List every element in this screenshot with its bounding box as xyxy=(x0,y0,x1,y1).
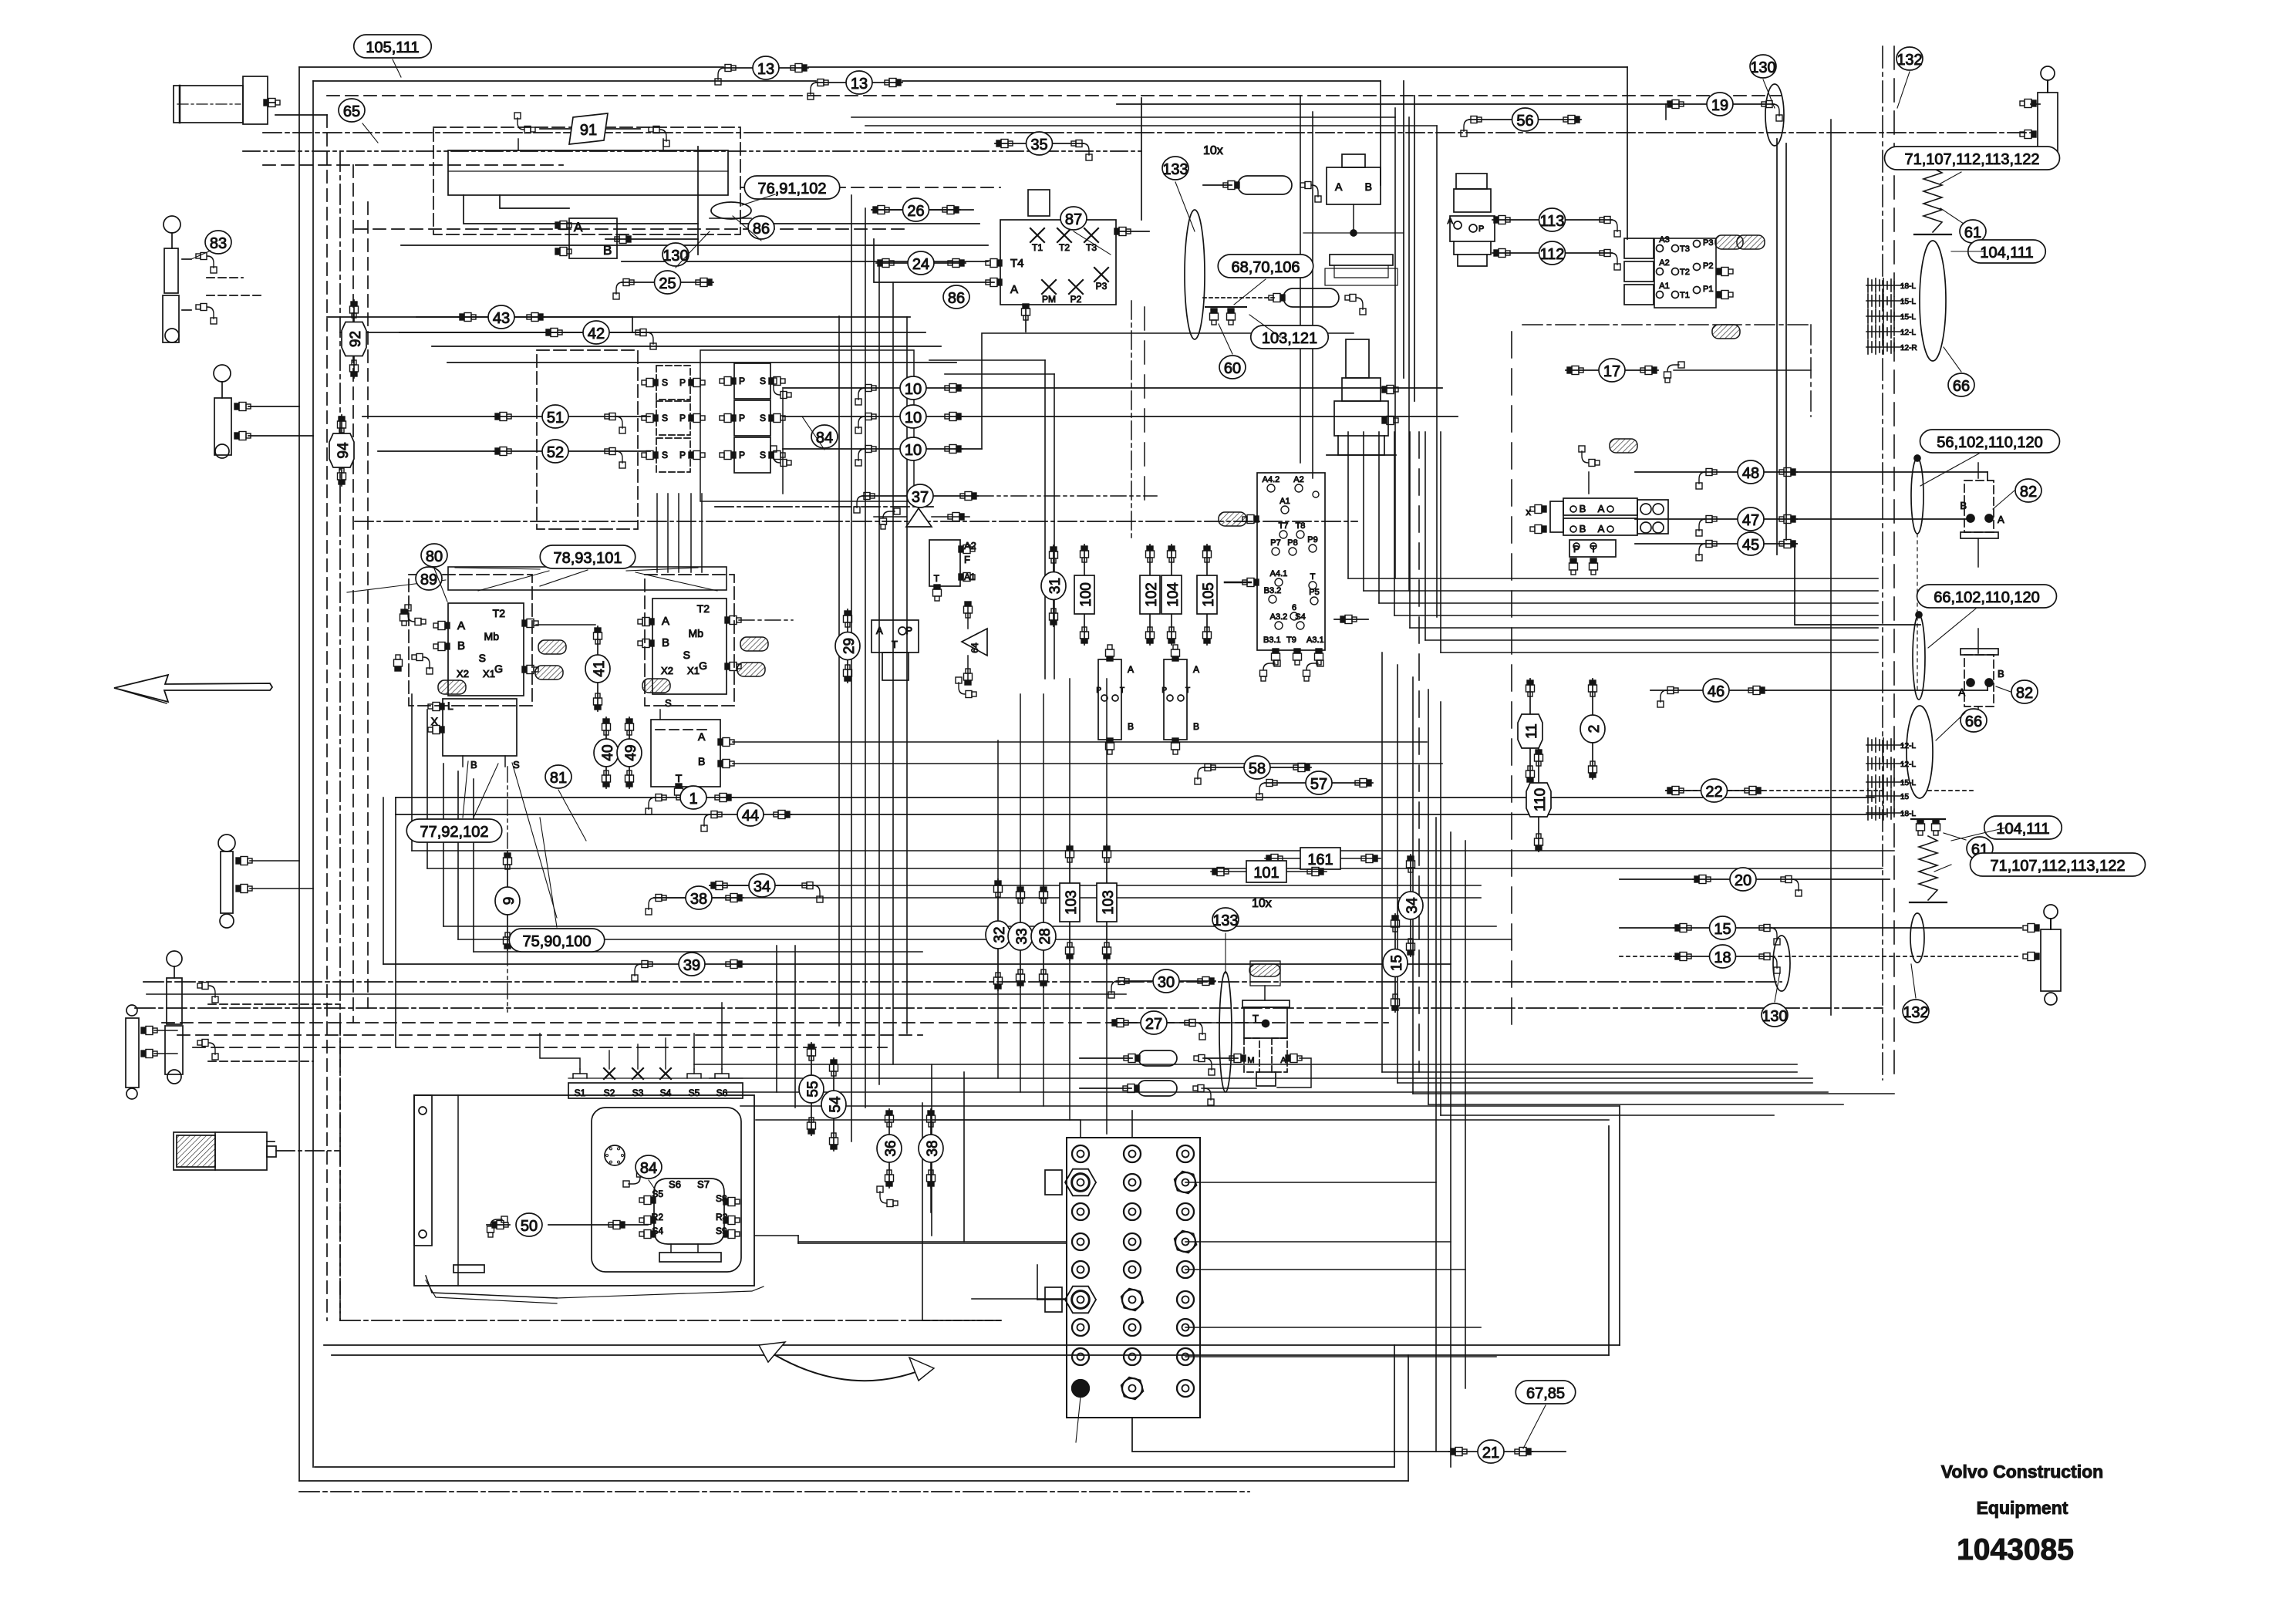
svg-text:A: A xyxy=(876,625,883,636)
balloon 87 xyxy=(1060,207,1087,230)
svg-text:S: S xyxy=(662,450,668,460)
svg-text:P5: P5 xyxy=(1309,588,1319,597)
wire: verticals center top xyxy=(1300,96,1301,463)
svg-text:12-R: 12-R xyxy=(1900,344,1917,352)
svg-text:68,70,106: 68,70,106 xyxy=(1232,259,1300,276)
tank assembly xyxy=(414,1095,754,1286)
svg-text:A3: A3 xyxy=(1659,235,1669,244)
svg-text:S: S xyxy=(760,376,766,386)
manifold wire entries xyxy=(932,1120,1081,1138)
svg-text:104,111: 104,111 xyxy=(1980,244,2033,261)
svg-text:A: A xyxy=(698,730,706,743)
hose 34 xyxy=(710,874,823,902)
svg-text:71,107,112,113,122: 71,107,112,113,122 xyxy=(1991,858,2126,875)
hose 17 xyxy=(1566,359,1658,382)
hose 101 xyxy=(1211,871,1327,872)
svg-text:B: B xyxy=(1365,180,1372,193)
svg-text:A: A xyxy=(1128,664,1134,675)
svg-text:B: B xyxy=(1960,500,1967,511)
svg-text:101: 101 xyxy=(1253,865,1279,882)
svg-text:S: S xyxy=(479,652,486,664)
wire: cooler to valve T4 xyxy=(740,187,1000,188)
svg-text:55: 55 xyxy=(805,1081,821,1097)
dashed boxes around pumps xyxy=(409,575,532,706)
svg-text:18: 18 xyxy=(1714,949,1731,966)
hose 19 xyxy=(1666,93,1782,121)
svg-text:S: S xyxy=(760,413,766,423)
svg-text:22: 22 xyxy=(1705,784,1722,801)
hose 25 xyxy=(613,271,713,299)
hose 113 xyxy=(1492,208,1620,237)
wire: valve stack outputs xyxy=(783,387,864,389)
hose 47 xyxy=(1696,508,1797,536)
balloon 86 xyxy=(748,216,774,239)
svg-text:60: 60 xyxy=(1224,360,1241,377)
hose 110 (vertical) xyxy=(1526,748,1551,851)
label 75,90,100 xyxy=(509,929,605,952)
svg-text:28: 28 xyxy=(1037,928,1054,944)
svg-text:102: 102 xyxy=(1144,582,1160,607)
svg-text:84: 84 xyxy=(640,1160,657,1177)
svg-text:T: T xyxy=(1310,572,1316,582)
svg-text:41: 41 xyxy=(592,660,608,676)
triangle 23 xyxy=(906,508,932,527)
wire: center bundle corners right xyxy=(1382,1071,1797,1073)
svg-text:S4: S4 xyxy=(660,1088,672,1098)
svg-text:P8: P8 xyxy=(1287,538,1297,548)
svg-text:31: 31 xyxy=(1047,578,1064,594)
balloon 132br xyxy=(1903,1000,1929,1023)
svg-text:47: 47 xyxy=(1742,512,1759,529)
balloon 82b xyxy=(2011,680,2038,703)
wire: long dashed verticals center xyxy=(1418,432,1420,1072)
hose 48 xyxy=(1696,460,1797,489)
svg-text:P9: P9 xyxy=(1307,535,1317,545)
svg-text:38: 38 xyxy=(925,1140,941,1156)
label 77,92,102 xyxy=(406,819,502,842)
right cyl 82 bottom xyxy=(1961,649,1998,655)
svg-text:B: B xyxy=(457,639,465,653)
svg-text:18-L: 18-L xyxy=(1900,810,1916,818)
label 104,111 xyxy=(1968,240,2046,263)
svg-text:B: B xyxy=(603,243,612,258)
svg-text:T8: T8 xyxy=(1296,521,1306,531)
hose 56 xyxy=(1461,108,1581,137)
hose 54 (vertical) xyxy=(821,1058,846,1151)
svg-text:130: 130 xyxy=(1750,59,1775,76)
svg-text:75,90,100: 75,90,100 xyxy=(523,933,592,950)
hose 29 (vertical) xyxy=(835,609,860,683)
svg-text:T2: T2 xyxy=(697,602,710,615)
svg-text:76,91,102: 76,91,102 xyxy=(758,180,827,197)
right bottom cylinder xyxy=(2044,905,2058,919)
hose 10b xyxy=(855,405,963,433)
svg-text:15: 15 xyxy=(1389,955,1405,971)
svg-text:A3.2: A3.2 xyxy=(1270,612,1288,622)
svg-text:92: 92 xyxy=(348,331,364,347)
svg-text:Equipment: Equipment xyxy=(1977,1498,2068,1518)
svg-text:T: T xyxy=(1185,686,1190,695)
cylinder top-left xyxy=(174,86,243,123)
hose 36 (vertical) xyxy=(877,1109,902,1188)
svg-text:P: P xyxy=(739,450,745,460)
svg-text:P: P xyxy=(1161,686,1167,695)
svg-text:46: 46 xyxy=(1708,683,1725,700)
svg-text:32: 32 xyxy=(992,926,1008,943)
hose 52 xyxy=(494,440,625,468)
svg-text:87: 87 xyxy=(1065,211,1082,228)
svg-text:130: 130 xyxy=(1762,1008,1787,1025)
wire: center vertical bundle down xyxy=(1381,653,1383,1072)
hose 15b (vertical) xyxy=(1383,914,1408,1012)
tank drain xyxy=(426,1276,557,1298)
svg-text:M: M xyxy=(1247,1056,1254,1065)
hose 38 xyxy=(646,886,743,915)
balloon 81 xyxy=(545,765,571,788)
svg-text:T: T xyxy=(892,639,898,650)
hose 43 xyxy=(458,305,544,329)
wire: outer frame verticals left xyxy=(298,67,300,1481)
S1-S6 header xyxy=(568,1083,743,1098)
box A/B 130 xyxy=(569,218,617,258)
svg-text:81: 81 xyxy=(550,770,567,787)
svg-text:B: B xyxy=(1128,721,1134,732)
svg-text:61: 61 xyxy=(1964,224,1981,241)
valve block 87 xyxy=(1000,220,1116,305)
gear pump in tank xyxy=(654,1179,724,1244)
svg-text:94: 94 xyxy=(335,442,352,459)
small manifold A2/F/A1 xyxy=(929,540,960,586)
spring bottom right xyxy=(1911,818,1945,820)
svg-text:39: 39 xyxy=(683,957,700,974)
svg-text:100: 100 xyxy=(1078,582,1094,607)
svg-text:48: 48 xyxy=(1742,465,1759,482)
hose 40 (vertical) xyxy=(594,717,619,788)
balloon 86b xyxy=(943,285,969,309)
svg-text:A2: A2 xyxy=(1293,475,1303,484)
svg-text:B: B xyxy=(662,636,669,649)
svg-text:X2: X2 xyxy=(661,665,673,676)
balloon 80 xyxy=(421,544,447,567)
hose 161 xyxy=(1265,858,1381,859)
svg-text:A2: A2 xyxy=(1659,258,1669,268)
balloon 65 xyxy=(339,99,365,122)
hose 42 xyxy=(544,321,656,349)
svg-text:21: 21 xyxy=(1482,1445,1499,1462)
svg-text:A: A xyxy=(1598,503,1605,514)
balloon 61b xyxy=(1967,837,1993,860)
wire: bottom buses xyxy=(324,1344,1620,1346)
svg-text:132: 132 xyxy=(1896,52,1922,69)
svg-text:54: 54 xyxy=(828,1096,844,1113)
hose 27 xyxy=(1111,1011,1205,1040)
hose 100 (vertical) xyxy=(1074,545,1094,645)
svg-text:36: 36 xyxy=(883,1140,899,1156)
svg-text:45: 45 xyxy=(1742,537,1759,554)
svg-text:103: 103 xyxy=(1101,890,1117,915)
motor bottom-left xyxy=(174,1132,267,1170)
svg-text:2: 2 xyxy=(1586,725,1603,733)
hose 35 xyxy=(995,132,1092,160)
svg-text:50: 50 xyxy=(521,1218,538,1235)
wire: dashed tank area xyxy=(340,1320,1001,1321)
bottom-center valve 133 xyxy=(1219,972,1232,1092)
svg-text:A: A xyxy=(1958,686,1965,698)
hose 104 (vertical) xyxy=(1161,545,1182,645)
svg-text:A: A xyxy=(1998,514,2004,525)
svg-text:T: T xyxy=(676,772,683,784)
arrow symbol left xyxy=(114,675,272,702)
svg-text:T3: T3 xyxy=(1086,242,1097,253)
svg-text:x: x xyxy=(1526,506,1532,518)
wire: left loop verticals xyxy=(383,798,384,964)
svg-text:29: 29 xyxy=(841,638,858,654)
svg-text:T1: T1 xyxy=(1680,291,1690,300)
svg-text:49: 49 xyxy=(623,744,639,760)
svg-text:A: A xyxy=(574,220,583,234)
svg-text:44: 44 xyxy=(742,808,759,824)
svg-text:9: 9 xyxy=(501,897,518,905)
springs right xyxy=(1916,150,1950,152)
steering valve bank xyxy=(1563,498,1637,515)
balloon 133 xyxy=(1162,157,1188,180)
hose 44 xyxy=(701,803,791,831)
arc arrow xyxy=(764,1348,929,1381)
svg-text:A: A xyxy=(1335,180,1343,193)
wire: left dashed verticals xyxy=(326,115,328,1320)
svg-text:30: 30 xyxy=(1158,974,1175,991)
hose 92 (vertical) xyxy=(342,300,366,378)
svg-text:S3: S3 xyxy=(632,1088,644,1098)
balloon 130 xyxy=(663,243,689,266)
svg-text:24: 24 xyxy=(912,256,929,273)
label 66,102,110,120 xyxy=(1917,585,2057,608)
hose 10c xyxy=(855,437,963,466)
balloon 133b xyxy=(1212,908,1239,931)
svg-text:103,121: 103,121 xyxy=(1262,330,1317,347)
balloon 132tr xyxy=(1896,47,1923,70)
svg-text:P2: P2 xyxy=(1703,261,1713,271)
balloon 61 xyxy=(1960,220,1986,243)
filter block center xyxy=(872,620,919,653)
valve stacks center-top xyxy=(656,366,690,400)
hose 1 xyxy=(646,786,733,814)
svg-text:105,111: 105,111 xyxy=(366,39,419,56)
svg-text:56: 56 xyxy=(1516,113,1533,130)
hose 103b (vertical) xyxy=(1097,845,1117,960)
svg-text:T1: T1 xyxy=(1032,242,1043,253)
svg-text:65: 65 xyxy=(343,103,360,120)
svg-text:10: 10 xyxy=(905,410,922,427)
svg-text:112: 112 xyxy=(1540,246,1565,263)
svg-text:19: 19 xyxy=(1711,97,1728,114)
svg-text:38: 38 xyxy=(690,891,707,908)
label 105,111 xyxy=(354,35,432,58)
svg-text:B: B xyxy=(1580,523,1586,534)
svg-text:82: 82 xyxy=(2020,484,2037,501)
hose 2 (vertical) xyxy=(1580,679,1605,779)
hose 9 (vertical) xyxy=(495,851,520,950)
hose 31 (vertical) xyxy=(1041,545,1066,626)
hose 10a xyxy=(855,376,963,405)
svg-text:S2: S2 xyxy=(604,1088,615,1098)
svg-text:13: 13 xyxy=(757,61,774,78)
balloon 82 xyxy=(2015,479,2041,502)
valve trio A3/T3 xyxy=(1654,238,1716,308)
svg-text:20: 20 xyxy=(1735,872,1752,889)
svg-text:S4: S4 xyxy=(1295,612,1305,622)
svg-text:10x: 10x xyxy=(1203,144,1223,157)
hose 26 xyxy=(872,198,960,221)
hose 50 xyxy=(487,1224,510,1226)
mid right ports 66 xyxy=(1907,706,1933,798)
svg-text:Mb: Mb xyxy=(689,627,704,639)
svg-text:43: 43 xyxy=(493,310,510,327)
svg-text:86: 86 xyxy=(948,290,965,307)
risers bottom center xyxy=(776,946,777,1092)
wire: stack-down verticals xyxy=(656,494,658,572)
hose 13a xyxy=(715,56,808,85)
balloon 89 xyxy=(416,567,442,590)
label 56,102,110,120 xyxy=(1920,430,2060,453)
svg-text:77,92,102: 77,92,102 xyxy=(420,824,489,841)
svg-text:A: A xyxy=(1010,283,1018,296)
svg-text:P: P xyxy=(679,450,686,460)
accumulator hoses top xyxy=(1238,176,1292,194)
svg-text:PM: PM xyxy=(1042,294,1056,305)
svg-text:F: F xyxy=(964,554,970,565)
svg-text:83: 83 xyxy=(210,235,227,252)
svg-text:P3: P3 xyxy=(1096,281,1108,292)
hose 15 xyxy=(1674,916,1780,945)
wire: manifold bottom exit to hose21 xyxy=(1132,1418,1449,1452)
svg-text:104,111: 104,111 xyxy=(1996,821,2049,838)
svg-text:105: 105 xyxy=(1201,582,1217,607)
svg-text:S7: S7 xyxy=(697,1179,710,1190)
wire: staircase from A4 block to fold xyxy=(1347,432,1349,578)
pump block 2 xyxy=(652,599,727,694)
svg-text:S6: S6 xyxy=(669,1179,681,1190)
hose 57 xyxy=(1256,771,1373,800)
svg-text:66: 66 xyxy=(1965,713,1982,730)
hose 49 (vertical) xyxy=(617,717,642,788)
hose 94 (vertical) xyxy=(329,415,354,486)
svg-text:42: 42 xyxy=(588,325,605,342)
svg-text:15-L: 15-L xyxy=(1900,298,1916,306)
svg-text:80: 80 xyxy=(426,548,443,565)
svg-text:P: P xyxy=(1478,224,1484,234)
svg-text:S: S xyxy=(760,450,766,460)
svg-text:S5: S5 xyxy=(689,1088,700,1098)
svg-text:S6: S6 xyxy=(716,1088,728,1098)
hose 22 xyxy=(1666,779,1762,802)
balloon 130br xyxy=(1762,1003,1788,1027)
wire: top horizontal bus xyxy=(299,66,723,68)
svg-text:P: P xyxy=(739,413,745,423)
wire: verticals right of tank xyxy=(922,1103,923,1320)
svg-text:S1: S1 xyxy=(575,1088,586,1098)
small cylinder bottom-left2 xyxy=(126,1005,137,1016)
hose 112 xyxy=(1492,241,1620,270)
svg-text:T2: T2 xyxy=(493,607,506,619)
label 71,107,112,113,122 xyxy=(1971,853,2146,876)
svg-text:66,102,110,120: 66,102,110,120 xyxy=(1934,589,2040,606)
wire: mid-left nested loops xyxy=(355,228,910,230)
svg-text:X1: X1 xyxy=(687,665,700,676)
wire: tall center verticals xyxy=(1394,108,1396,578)
label 76,91,102 xyxy=(744,176,840,199)
top right 133 assembly xyxy=(1327,167,1381,204)
svg-text:15: 15 xyxy=(1900,793,1910,801)
svg-text:T3: T3 xyxy=(1680,244,1690,254)
svg-text:27: 27 xyxy=(1145,1016,1162,1033)
hose 11 (vertical) xyxy=(1518,679,1542,784)
svg-text:T7: T7 xyxy=(1279,521,1289,531)
fan lines to 78,93,101 xyxy=(455,568,540,569)
svg-text:S: S xyxy=(662,377,668,388)
label 91 xyxy=(569,113,608,144)
svg-text:T4: T4 xyxy=(1010,257,1024,270)
svg-text:56,102,110,120: 56,102,110,120 xyxy=(1937,434,2043,451)
wire: right long vertical xyxy=(1830,120,1832,1015)
svg-text:B: B xyxy=(1193,721,1199,732)
svg-text:132: 132 xyxy=(1903,1004,1928,1021)
svg-text:10x: 10x xyxy=(1252,897,1272,910)
svg-text:P7: P7 xyxy=(1270,538,1280,548)
label 78,93,101 xyxy=(540,545,636,568)
svg-text:S: S xyxy=(665,697,672,709)
dashed box 78,93,101 xyxy=(537,350,638,529)
orbitrol motor xyxy=(1454,189,1491,212)
svg-text:64: 64 xyxy=(969,642,980,653)
svg-text:13: 13 xyxy=(851,76,868,93)
hose 51 xyxy=(494,405,625,433)
pilot valves x2 xyxy=(1098,659,1121,740)
svg-text:T2: T2 xyxy=(1059,242,1070,253)
svg-text:P: P xyxy=(679,413,686,423)
svg-text:40: 40 xyxy=(600,744,616,760)
svg-text:A4.1: A4.1 xyxy=(1270,569,1288,578)
hose 38b (vertical) xyxy=(919,1109,943,1188)
svg-text:P1: P1 xyxy=(1703,285,1713,294)
svg-text:71,107,112,113,122: 71,107,112,113,122 xyxy=(1905,151,2040,168)
wire: pump suction to cooler xyxy=(464,195,698,224)
pump top center-right xyxy=(1342,378,1381,401)
svg-text:P: P xyxy=(739,376,745,386)
hose 13b xyxy=(807,71,902,99)
hose 24 xyxy=(876,251,966,275)
svg-text:X2: X2 xyxy=(457,668,469,679)
svg-text:113: 113 xyxy=(1540,213,1565,230)
svg-text:34: 34 xyxy=(754,878,770,895)
svg-text:Mb: Mb xyxy=(484,630,500,642)
top cooler box xyxy=(448,150,728,195)
svg-text:B: B xyxy=(1580,503,1586,514)
hose 91 xyxy=(518,139,519,150)
balloon 83 xyxy=(205,231,231,254)
pump1 pilot box xyxy=(443,699,517,756)
svg-text:1: 1 xyxy=(689,791,697,808)
svg-text:57: 57 xyxy=(1310,776,1327,793)
wire: 51/52 feeds xyxy=(362,416,494,417)
hose 39 xyxy=(632,953,743,981)
wire: dashdot box hose17 xyxy=(1522,324,1811,325)
wire: hoses 43/42 runs xyxy=(327,316,458,318)
manifold block xyxy=(1067,1138,1200,1418)
hose 20 xyxy=(1693,868,1802,896)
hose 33 (vertical) xyxy=(1008,885,1033,987)
svg-text:P3: P3 xyxy=(1703,238,1713,248)
